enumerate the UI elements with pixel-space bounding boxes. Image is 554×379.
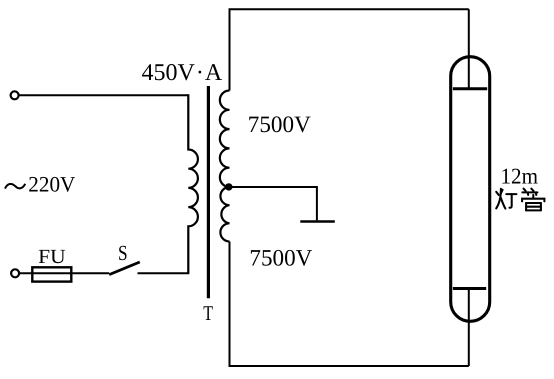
svg-text:T: T <box>203 301 213 325</box>
svg-text:7500V: 7500V <box>248 112 311 138</box>
svg-text:7500V: 7500V <box>249 245 312 271</box>
svg-text:FU: FU <box>38 246 66 268</box>
svg-text:S: S <box>118 241 128 265</box>
svg-text:220V: 220V <box>28 172 75 197</box>
svg-text:12m: 12m <box>501 164 539 189</box>
svg-text:450V·A: 450V·A <box>142 60 223 86</box>
